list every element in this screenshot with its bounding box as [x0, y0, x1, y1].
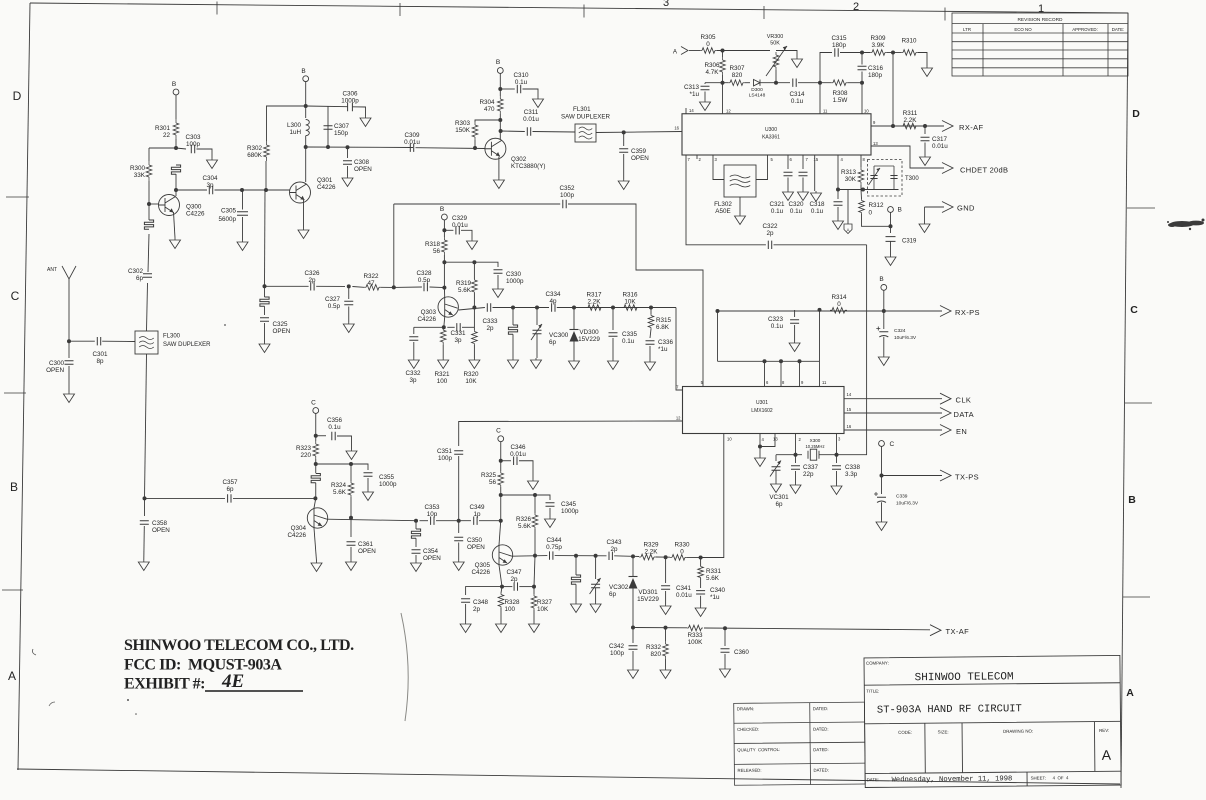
ground [608, 359, 619, 370]
wire [523, 89, 539, 97]
wire [704, 92, 706, 101]
ground GND source [919, 207, 930, 233]
svg-text:C310: C310 [513, 72, 529, 79]
capacitor C360 [724, 628, 726, 646]
svg-text:C321: C321 [769, 201, 785, 208]
resistor R311 [901, 125, 918, 127]
svg-text:8p: 8p [96, 358, 104, 365]
wire C352 riser [393, 204, 395, 287]
svg-text:0.75p: 0.75p [546, 544, 562, 551]
node [860, 81, 864, 85]
svg-text:R304: R304 [479, 99, 495, 106]
svg-text:C307: C307 [334, 123, 350, 130]
wire [499, 73, 501, 96]
svg-text:C4226: C4226 [471, 569, 490, 576]
svg-text:C343: C343 [606, 539, 622, 546]
node [174, 188, 178, 192]
wire C322 return riser [837, 245, 867, 455]
resistor R307 [728, 82, 745, 84]
svg-text:KA3361: KA3361 [762, 135, 780, 141]
svg-text:R328: R328 [505, 599, 521, 606]
svg-text:C4226: C4226 [287, 532, 306, 539]
svg-text:0.1u: 0.1u [515, 79, 528, 86]
svg-text:C306: C306 [342, 91, 358, 98]
wire [473, 293, 475, 308]
svg-text:CHECKED:: CHECKED: [737, 727, 759, 732]
ground [798, 190, 809, 201]
svg-text:C333: C333 [482, 318, 498, 325]
svg-text:VR300: VR300 [767, 34, 783, 40]
wire [665, 659, 667, 668]
svg-text:12: 12 [726, 109, 731, 114]
node [891, 124, 895, 128]
ground [493, 178, 504, 189]
capacitor C344 [550, 551, 553, 559]
scan smudge right edge [1167, 219, 1205, 231]
svg-text:C309: C309 [404, 132, 420, 139]
wire T300 top rail [874, 165, 894, 167]
svg-text:C328: C328 [416, 270, 432, 277]
node [349, 462, 353, 466]
capacitor C309 [410, 144, 413, 152]
wire [536, 308, 538, 326]
wire [148, 234, 149, 272]
wire A flag stem [847, 190, 849, 225]
resistor R326 [534, 513, 536, 529]
resistor R304 [499, 96, 501, 114]
transistor Q305 [492, 545, 512, 565]
svg-text:2.2K: 2.2K [645, 549, 659, 556]
svg-text:SHEET:: SHEET: [1031, 775, 1046, 780]
resistor R333 [687, 627, 703, 629]
wire [242, 190, 244, 210]
ground [311, 561, 322, 572]
variable capacitor VC302 [591, 584, 600, 587]
svg-text:0.1u: 0.1u [328, 424, 341, 431]
wire [890, 212, 892, 233]
svg-text:C317: C317 [932, 136, 948, 143]
svg-text:TX-PS: TX-PS [955, 472, 979, 481]
wire [555, 555, 607, 557]
svg-text:OPEN: OPEN [152, 527, 170, 534]
svg-text:R319: R319 [456, 280, 472, 287]
wire ground stem [174, 212, 176, 238]
node [923, 124, 927, 128]
ground [259, 342, 270, 353]
svg-text:0.5p: 0.5p [328, 303, 341, 310]
svg-text:C350: C350 [467, 537, 483, 544]
svg-text:0.01u: 0.01u [676, 592, 692, 599]
svg-text:A: A [1126, 687, 1134, 699]
wire pin15 ground stem [814, 155, 816, 191]
transistor Q303 [438, 297, 458, 317]
capacitor C310 [517, 85, 520, 93]
svg-text:*1u: *1u [658, 346, 668, 353]
svg-text:C361: C361 [358, 541, 374, 548]
wire Q301 base tap riser [264, 190, 267, 286]
wire [918, 53, 927, 67]
svg-text:C314: C314 [789, 91, 805, 98]
wire [175, 174, 177, 196]
wire bias rail [705, 82, 728, 84]
ground [700, 100, 711, 111]
node [860, 51, 864, 55]
svg-text:10K: 10K [624, 299, 636, 306]
wire [350, 497, 352, 518]
wire [595, 588, 597, 602]
svg-text:C347: C347 [506, 569, 522, 576]
svg-text:C320: C320 [788, 201, 804, 208]
node [499, 493, 503, 497]
capacitor C301 [97, 337, 100, 345]
wire [443, 288, 445, 297]
wire [502, 586, 512, 588]
node Q300 collector top [174, 146, 178, 150]
svg-text:A: A [8, 669, 16, 683]
wire [197, 149, 213, 158]
svg-text:C341: C341 [676, 585, 692, 592]
capacitor C351 [454, 451, 463, 454]
svg-text:CLK: CLK [956, 396, 972, 405]
svg-text:100K: 100K [688, 639, 704, 646]
wire [665, 591, 667, 604]
wire [264, 323, 266, 342]
capacitor C331 [457, 323, 460, 331]
node [779, 359, 783, 363]
svg-text:C338: C338 [845, 464, 861, 471]
terminal B RX-PS [881, 285, 887, 291]
resistor R314 [830, 309, 847, 311]
ground [528, 479, 539, 490]
svg-text:CODE:: CODE: [898, 730, 912, 735]
wire [394, 286, 422, 288]
svg-text:680K: 680K [247, 152, 263, 159]
svg-text:DATED:: DATED: [813, 727, 828, 732]
node [574, 554, 578, 558]
wire pin6 stem [787, 155, 789, 169]
border tick right [1123, 596, 1150, 598]
svg-text:R322: R322 [363, 273, 379, 280]
resistor R302 [266, 141, 268, 161]
wire [501, 130, 525, 133]
ground [618, 179, 629, 190]
svg-text:2p: 2p [510, 576, 518, 583]
wire [265, 285, 309, 287]
ground [571, 602, 582, 613]
svg-text:C: C [496, 428, 501, 435]
svg-text:OPEN: OPEN [354, 166, 372, 173]
border frame right [1121, 13, 1128, 788]
wire [68, 366, 70, 392]
wire [347, 147, 349, 158]
svg-text:Q300: Q300 [186, 204, 202, 211]
wire TX-AF line [633, 627, 687, 629]
node [532, 585, 536, 589]
resistor R323 [315, 441, 317, 459]
tuner T300 dashed box [868, 160, 903, 197]
resistor R330 [670, 556, 687, 558]
flag A [844, 224, 852, 234]
svg-text:100p: 100p [438, 455, 453, 462]
node [594, 554, 598, 558]
node [304, 104, 308, 108]
svg-text:R321: R321 [434, 371, 450, 378]
wire FL302 ground stem [739, 197, 741, 214]
ground [170, 238, 181, 249]
svg-text:R325: R325 [481, 472, 497, 479]
svg-text:C4226: C4226 [317, 184, 336, 191]
border frame left [18, 3, 30, 770]
wire pin2 stem [795, 434, 797, 455]
ground [920, 155, 931, 166]
ground [790, 483, 801, 494]
svg-text:0.1u: 0.1u [790, 208, 803, 215]
svg-text:R323: R323 [296, 445, 312, 452]
wire [568, 204, 703, 386]
ground [496, 622, 507, 633]
wire C352 rail [394, 203, 560, 205]
svg-text:L300: L300 [287, 122, 302, 129]
svg-text:2.2K: 2.2K [588, 299, 602, 306]
svg-text:R314: R314 [831, 294, 847, 301]
border tick top [583, 5, 585, 18]
node [472, 306, 476, 310]
IC U301 LMX1602 [683, 387, 845, 434]
resistor R310 [901, 52, 918, 54]
svg-text:C354: C354 [423, 548, 439, 555]
ground [833, 219, 844, 230]
wire supply bus above U301 [718, 360, 820, 362]
wire ground stem [498, 157, 500, 179]
node [664, 555, 668, 559]
node [721, 81, 725, 85]
svg-text:10: 10 [727, 437, 732, 442]
border frame bottom [17, 769, 1120, 784]
capacitor C305 [237, 212, 248, 215]
svg-text:C334: C334 [545, 291, 561, 298]
svg-text:0: 0 [869, 210, 873, 217]
output arrow CLK [940, 393, 951, 404]
wire pin10 riser [861, 83, 863, 114]
output arrow DATA [940, 408, 951, 419]
wire [233, 497, 315, 499]
wire [787, 178, 789, 191]
svg-text:*1u: *1u [690, 91, 700, 98]
wire [501, 494, 535, 496]
capacitor C342 [632, 628, 634, 644]
svg-text:C325: C325 [273, 321, 289, 328]
capacitor C350 [458, 521, 460, 533]
svg-text:B: B [898, 207, 902, 214]
svg-text:0: 0 [837, 301, 841, 308]
wire pin6 riser [764, 361, 766, 386]
svg-text:VC301: VC301 [769, 494, 789, 501]
wire [575, 584, 577, 602]
ground [628, 668, 639, 679]
svg-text:14: 14 [847, 392, 852, 397]
inductor bead C325 chain [264, 286, 266, 297]
svg-text:2: 2 [853, 1, 859, 13]
capacitor C330 [494, 270, 503, 273]
svg-text:OPEN: OPEN [358, 548, 376, 555]
border tick right [1127, 207, 1155, 209]
node [631, 626, 635, 630]
border tick left [4, 392, 26, 394]
svg-text:SAW DUPLEXER: SAW DUPLEXER [561, 114, 610, 121]
svg-text:QUALITY CONTROL:: QUALITY CONTROL: [737, 747, 780, 752]
svg-text:2p: 2p [610, 546, 618, 553]
wire [623, 132, 625, 146]
page curl arc artifact [401, 613, 408, 721]
wire [890, 242, 892, 256]
node [414, 519, 418, 523]
wire [612, 308, 614, 331]
svg-text:14: 14 [689, 108, 694, 113]
svg-text:C324: C324 [894, 328, 906, 334]
ground [771, 482, 782, 493]
wire TX input line [145, 497, 226, 499]
wire [501, 587, 502, 593]
wire C315 rail [820, 53, 832, 83]
wire [924, 143, 926, 156]
node [511, 306, 515, 310]
svg-text:GND: GND [957, 204, 975, 213]
variable capacitor VC301 [772, 467, 781, 470]
wire [266, 189, 290, 191]
electrolytic capacitor C324 [879, 332, 888, 337]
border tick top [399, 3, 401, 16]
wire [557, 307, 676, 309]
resistor R316 [622, 307, 639, 309]
svg-text:TX-AF: TX-AF [946, 627, 970, 636]
svg-text:R301: R301 [155, 125, 171, 132]
svg-text:10.25MHz: 10.25MHz [805, 444, 824, 449]
node [889, 224, 893, 228]
revision record table [952, 13, 1128, 76]
wire [650, 329, 651, 338]
resistor R306 [722, 57, 724, 75]
svg-text:C329: C329 [452, 215, 468, 222]
node [533, 554, 537, 558]
resistor R317 [586, 307, 603, 309]
svg-text:B: B [10, 480, 18, 494]
ground [878, 355, 889, 366]
node [818, 308, 822, 312]
ground [408, 358, 419, 369]
capacitor C347 [514, 582, 517, 590]
node [611, 306, 615, 310]
output arrow TX-PS [940, 470, 951, 481]
wire [534, 556, 535, 587]
svg-text:ECO NO: ECO NO [1014, 27, 1032, 32]
svg-text:C335: C335 [622, 331, 638, 338]
wire [887, 52, 901, 54]
capacitor C335 [609, 333, 618, 336]
svg-text:Wednesday, November 11, 1998: Wednesday, November 11, 1998 [892, 775, 1013, 784]
wire [473, 345, 475, 358]
wire [175, 139, 177, 148]
svg-text:D: D [13, 89, 22, 103]
svg-text:820: 820 [732, 72, 743, 79]
svg-text:0.01u: 0.01u [404, 139, 420, 146]
svg-text:VD300: VD300 [579, 329, 599, 336]
wire [315, 459, 317, 473]
svg-text:3p: 3p [454, 337, 462, 344]
capacitor C353 [431, 517, 434, 525]
wire [148, 181, 150, 204]
svg-text:R305: R305 [700, 34, 716, 41]
svg-text:DATA: DATA [954, 410, 975, 419]
wire [461, 230, 472, 239]
node [882, 309, 886, 313]
wire C348 branch [466, 587, 502, 595]
wire [848, 82, 862, 84]
svg-text:R312: R312 [869, 202, 885, 209]
svg-text:1000p: 1000p [561, 508, 579, 515]
wire [316, 435, 326, 437]
svg-text:6p: 6p [775, 501, 783, 508]
svg-text:X300: X300 [810, 438, 821, 443]
wire [536, 334, 538, 358]
wire [215, 189, 267, 191]
node [498, 87, 502, 91]
terminal B mixer supply [442, 214, 448, 220]
wire [315, 413, 317, 441]
svg-text:C4226: C4226 [186, 211, 205, 218]
svg-text:100: 100 [437, 378, 448, 385]
wire R302 riser [265, 161, 267, 190]
svg-text:0: 0 [706, 41, 710, 48]
node [835, 453, 839, 457]
wire [840, 52, 870, 54]
ground [493, 287, 504, 298]
capacitor C352 [563, 200, 566, 208]
svg-text:RX-PS: RX-PS [955, 308, 980, 317]
svg-text:DRAWING NO:: DRAWING NO: [1003, 729, 1033, 734]
svg-text:REV:: REV: [1099, 728, 1109, 733]
svg-text:C: C [311, 400, 316, 407]
svg-text:56: 56 [433, 248, 441, 255]
exhibit underline [205, 690, 303, 692]
wire [775, 471, 777, 483]
wire Q303 emitter stem [443, 317, 446, 327]
ground [569, 359, 580, 370]
wire [794, 325, 796, 341]
node [774, 81, 778, 85]
svg-text:REVISION RECORD: REVISION RECORD [1017, 17, 1063, 23]
wire [802, 178, 804, 191]
wire pin12 riser [722, 83, 724, 114]
wire R320 riser [473, 308, 475, 331]
capacitor C340 [696, 591, 705, 594]
capacitor C328 [424, 283, 427, 291]
node [442, 228, 446, 232]
svg-text:DRAWN:: DRAWN: [737, 706, 754, 711]
capacitor C311 [527, 127, 530, 135]
title block outline [864, 655, 1121, 787]
svg-text:APPROVED:: APPROVED: [1072, 27, 1098, 32]
inductor bead Q300 base [144, 220, 153, 229]
svg-text:5600p: 5600p [218, 216, 236, 223]
svg-text:4 OF 4: 4 OF 4 [1053, 775, 1069, 780]
svg-text:470: 470 [484, 106, 495, 113]
resistor R332 [665, 628, 667, 641]
wire pin11 riser [819, 83, 821, 114]
node [472, 260, 476, 264]
capacitor inside T300 [893, 166, 895, 190]
svg-text:3.9K: 3.9K [872, 42, 886, 49]
saw filter FL302 [724, 165, 756, 197]
